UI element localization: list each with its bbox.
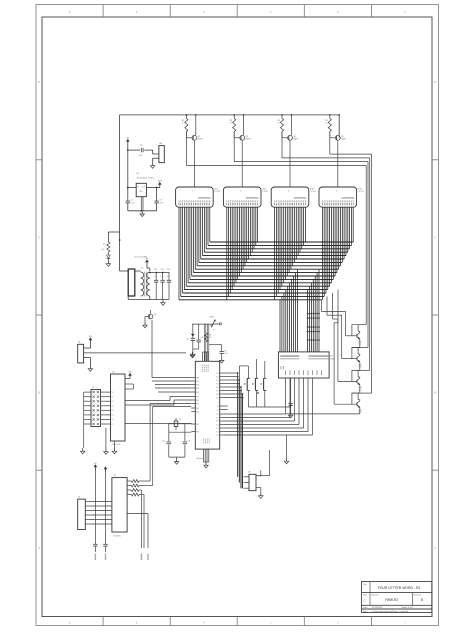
svg-text:C: C bbox=[38, 235, 40, 239]
svg-text:PD0: PD0 bbox=[216, 373, 219, 375]
svg-text:Y2: Y2 bbox=[179, 419, 181, 421]
svg-text:D4: D4 bbox=[112, 410, 114, 412]
svg-text:5: 5 bbox=[136, 620, 138, 624]
svg-text:Sheet 1 of 1: Sheet 1 of 1 bbox=[402, 606, 415, 609]
svg-text:2: 2 bbox=[337, 10, 339, 14]
svg-text:5V: 5V bbox=[146, 258, 149, 260]
svg-text:C16: C16 bbox=[167, 269, 170, 271]
svg-text:C15: C15 bbox=[160, 269, 163, 271]
svg-text:U5: U5 bbox=[113, 475, 115, 477]
svg-text:C5: C5 bbox=[162, 441, 164, 443]
svg-text:114E: 114E bbox=[358, 412, 362, 414]
svg-text:PD5: PD5 bbox=[216, 390, 219, 392]
svg-text:DTA: DTA bbox=[358, 363, 362, 366]
svg-text:A1: A1 bbox=[217, 408, 219, 411]
svg-text:100n: 100n bbox=[224, 353, 228, 355]
svg-text:MMBT: MMBT bbox=[245, 139, 251, 141]
svg-text:C3: C3 bbox=[159, 200, 161, 202]
svg-text:4: 4 bbox=[336, 191, 337, 193]
svg-text:10u: 10u bbox=[160, 276, 163, 278]
svg-text:6: 6 bbox=[69, 620, 71, 624]
svg-text:PC0: PC0 bbox=[216, 414, 219, 416]
svg-text:C:\Users\fourletterword\Desig.: C:\Users\fourletterword\Desig.. Drawn By… bbox=[372, 610, 410, 613]
svg-text:D3: D3 bbox=[112, 406, 114, 408]
svg-text:PC3: PC3 bbox=[216, 424, 219, 426]
svg-text:LS1: LS1 bbox=[159, 143, 162, 145]
svg-text:PB1: PB1 bbox=[196, 381, 199, 383]
svg-text:C: C bbox=[434, 235, 436, 239]
svg-text:PB1: PB1 bbox=[196, 411, 199, 413]
svg-text:PD7: PD7 bbox=[216, 397, 219, 399]
svg-text:LTP587: LTP587 bbox=[262, 191, 268, 193]
svg-text:PB0: PB0 bbox=[196, 377, 199, 379]
svg-text:IN: IN bbox=[137, 187, 139, 189]
svg-text:File:: File: bbox=[363, 611, 367, 613]
svg-text:LTP587: LTP587 bbox=[310, 191, 316, 193]
svg-text:5V: 5V bbox=[94, 463, 97, 465]
svg-text:LTP587: LTP587 bbox=[214, 191, 220, 193]
svg-text:U8: U8 bbox=[248, 472, 250, 474]
svg-text:PB3: PB3 bbox=[196, 431, 199, 433]
svg-text:B: B bbox=[421, 598, 423, 602]
svg-text:3V3: 3V3 bbox=[158, 181, 163, 183]
svg-text:3: 3 bbox=[288, 191, 289, 193]
svg-text:74HC165: 74HC165 bbox=[112, 444, 121, 446]
svg-text:PB3: PB3 bbox=[196, 388, 199, 390]
svg-text:DIS1: DIS1 bbox=[214, 189, 219, 191]
svg-text:3: 3 bbox=[270, 620, 272, 624]
svg-text:114E: 114E bbox=[358, 367, 362, 369]
svg-text:D: D bbox=[434, 80, 436, 84]
svg-text:4: 4 bbox=[203, 10, 205, 14]
svg-text:PB6: PB6 bbox=[196, 400, 199, 402]
svg-text:114E: 114E bbox=[358, 344, 362, 346]
svg-text:PD6: PD6 bbox=[216, 394, 219, 396]
svg-text:XC62: XC62 bbox=[258, 476, 262, 478]
svg-text:L1: L1 bbox=[141, 268, 143, 270]
svg-text:J1: J1 bbox=[92, 387, 94, 389]
svg-text:1M: 1M bbox=[209, 337, 212, 339]
svg-text:PC1: PC1 bbox=[216, 417, 219, 419]
svg-text:PD1: PD1 bbox=[216, 376, 219, 378]
svg-text:DIS4: DIS4 bbox=[358, 189, 363, 191]
svg-text:B: B bbox=[38, 391, 40, 395]
svg-text:B: B bbox=[434, 391, 436, 395]
svg-text:PB7: PB7 bbox=[196, 403, 199, 405]
svg-text:C6: C6 bbox=[188, 441, 190, 443]
svg-text:10u: 10u bbox=[154, 276, 157, 278]
svg-text:A: A bbox=[434, 546, 436, 550]
svg-text:PC5: PC5 bbox=[216, 431, 219, 433]
svg-text:PB4: PB4 bbox=[196, 392, 199, 394]
svg-text:U6: U6 bbox=[330, 356, 332, 358]
svg-text:CH340N: CH340N bbox=[113, 536, 121, 538]
svg-text:3: 3 bbox=[270, 10, 272, 14]
svg-text:GND: GND bbox=[139, 191, 144, 193]
svg-text:LTP587: LTP587 bbox=[358, 191, 364, 193]
svg-text:16MHz: 16MHz bbox=[209, 317, 215, 319]
svg-text:10uF: 10uF bbox=[139, 155, 144, 157]
svg-text:D: D bbox=[38, 80, 40, 84]
svg-text:PB0: PB0 bbox=[196, 408, 199, 410]
svg-text:DTA: DTA bbox=[358, 409, 362, 412]
svg-text:D0: D0 bbox=[112, 392, 114, 394]
svg-text:PC4: PC4 bbox=[216, 428, 219, 430]
svg-text:U4: U4 bbox=[112, 372, 114, 374]
svg-text:2: 2 bbox=[240, 191, 241, 193]
svg-text:C: C bbox=[364, 599, 366, 603]
svg-text:MMBT: MMBT bbox=[198, 139, 204, 141]
svg-text:2: 2 bbox=[337, 620, 339, 624]
svg-text:D1: D1 bbox=[112, 397, 114, 399]
svg-text:FOUR LETTER WORD - R2: FOUR LETTER WORD - R2 bbox=[378, 586, 421, 590]
svg-text:12/13/2023: 12/13/2023 bbox=[372, 607, 384, 609]
svg-text:Revision: Revision bbox=[414, 595, 422, 597]
svg-text:114E: 114E bbox=[358, 389, 362, 391]
svg-text:R1: R1 bbox=[103, 244, 105, 246]
svg-text:C1: C1 bbox=[140, 144, 142, 146]
svg-text:1: 1 bbox=[404, 10, 406, 14]
svg-text:Date:: Date: bbox=[363, 606, 368, 609]
svg-text:D5: D5 bbox=[112, 415, 114, 417]
svg-text:5: 5 bbox=[136, 10, 138, 14]
svg-text:5V: 5V bbox=[89, 336, 92, 338]
svg-text:DTA: DTA bbox=[358, 386, 362, 389]
svg-text:Size: Size bbox=[363, 595, 368, 597]
svg-text:A: A bbox=[38, 546, 40, 550]
svg-text:5V: 5V bbox=[126, 138, 129, 140]
svg-text:C10: C10 bbox=[201, 337, 204, 339]
svg-text:Q1: Q1 bbox=[154, 314, 156, 316]
svg-text:PD2: PD2 bbox=[216, 380, 219, 382]
svg-text:D7: D7 bbox=[112, 424, 114, 426]
svg-text:D1: D1 bbox=[102, 249, 104, 251]
svg-text:5V: 5V bbox=[129, 372, 132, 374]
svg-text:OUT: OUT bbox=[142, 187, 146, 189]
svg-text:DIS3: DIS3 bbox=[310, 189, 315, 191]
svg-text:PC6: PC6 bbox=[216, 435, 219, 437]
svg-text:C9: C9 bbox=[187, 339, 189, 341]
svg-text:DTA: DTA bbox=[358, 341, 362, 344]
svg-text:10uF: 10uF bbox=[159, 202, 164, 204]
svg-text:AZ1086H-3.3TRE1: AZ1086H-3.3TRE1 bbox=[137, 177, 155, 180]
svg-text:MMBT: MMBT bbox=[341, 139, 347, 141]
svg-text:1: 1 bbox=[192, 191, 193, 193]
svg-text:D2: D2 bbox=[112, 401, 114, 403]
svg-text:6: 6 bbox=[69, 10, 71, 14]
svg-text:PC2: PC2 bbox=[216, 421, 219, 423]
svg-text:1: 1 bbox=[404, 620, 406, 624]
svg-text:C2: C2 bbox=[130, 200, 132, 202]
svg-text:PB2: PB2 bbox=[196, 384, 199, 386]
svg-text:U1: U1 bbox=[137, 173, 139, 175]
svg-text:DIS2: DIS2 bbox=[262, 189, 267, 191]
svg-text:S1: S1 bbox=[78, 342, 80, 344]
svg-text:Y1: Y1 bbox=[213, 330, 215, 332]
svg-text:4: 4 bbox=[203, 620, 205, 624]
svg-text:MMBT: MMBT bbox=[293, 139, 299, 141]
svg-text:10u: 10u bbox=[167, 276, 170, 278]
svg-text:A0: A0 bbox=[217, 405, 219, 408]
svg-text:D6: D6 bbox=[112, 419, 114, 421]
svg-text:PB5: PB5 bbox=[196, 396, 199, 398]
svg-text:C14: C14 bbox=[154, 269, 157, 271]
svg-text:Title: Title bbox=[363, 583, 368, 586]
svg-text:PD3: PD3 bbox=[216, 383, 219, 385]
svg-text:PD4: PD4 bbox=[216, 387, 219, 389]
svg-text:PB2: PB2 bbox=[196, 424, 199, 426]
svg-text:J2: J2 bbox=[78, 497, 80, 499]
svg-text:FWW-R2: FWW-R2 bbox=[385, 598, 398, 602]
svg-text:Number: Number bbox=[372, 595, 379, 597]
svg-text:10uF: 10uF bbox=[130, 202, 135, 204]
